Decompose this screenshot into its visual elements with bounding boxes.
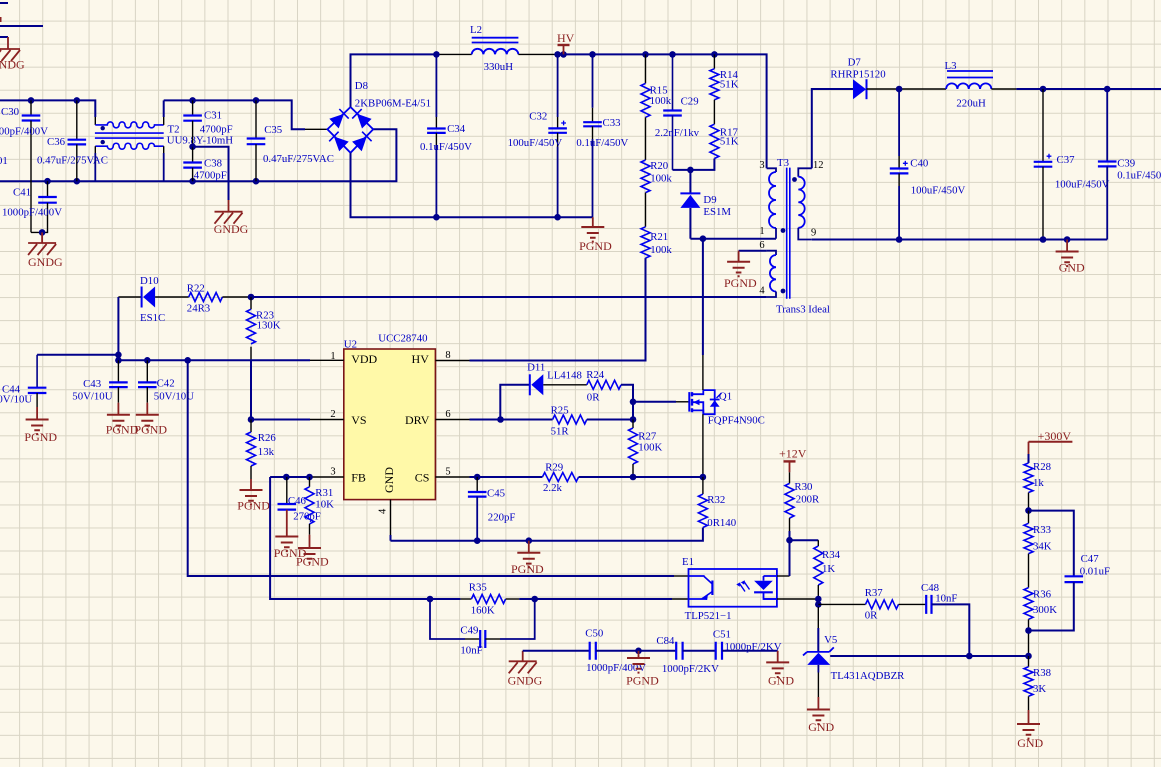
svg-text:C38: C38 [204,158,222,170]
bridge diode bottom-right [352,137,367,152]
svg-text:PGND: PGND [296,555,329,569]
ground PGND [296,524,329,569]
svg-text:1: 1 [759,226,764,237]
wire [645,117,647,160]
svg-text:10nF: 10nF [460,645,482,657]
node [253,97,260,104]
wire [702,239,704,355]
node [896,236,903,243]
node [1025,507,1032,514]
wire [932,604,970,656]
svg-text:U2: U2 [344,339,357,351]
svg-text:GNDG: GNDG [0,58,25,72]
svg-text:R20: R20 [650,160,668,172]
wire [812,89,853,168]
svg-text:R36: R36 [1033,589,1052,601]
svg-text:PGND: PGND [511,562,544,576]
svg-text:D7: D7 [848,57,862,69]
svg-text:GND: GND [1017,736,1043,750]
ground PGND [106,403,139,437]
node [815,601,822,608]
power port HV [557,31,575,54]
node [189,178,196,185]
node [39,229,46,236]
wire [817,607,819,628]
svg-text:0.47uF/275VAC: 0.47uF/275VAC [37,155,108,167]
svg-text:R34: R34 [822,549,841,561]
inductor L2 [470,24,518,73]
wire [0,36,8,38]
node [144,357,151,364]
node [554,214,561,221]
wire [777,598,818,600]
wire [543,384,587,386]
svg-text:3K: 3K [1033,683,1046,695]
svg-text:FB: FB [351,471,366,485]
transformer T2 [95,117,233,181]
svg-text:1: 1 [330,351,335,362]
svg-text:100k: 100k [650,244,672,256]
svg-text:1k: 1k [1033,477,1044,489]
capacitor C47 [1029,553,1111,631]
svg-text:2: 2 [330,409,335,420]
svg-text:220uH: 220uH [956,98,986,110]
svg-text:D11: D11 [527,362,545,374]
svg-text:C46: C46 [288,495,307,507]
optocoupler E1 [682,556,777,622]
wire [7,37,9,49]
svg-text:100k: 100k [650,173,672,185]
ground PGND [626,651,659,688]
node [283,474,290,481]
ground PGND [237,466,270,513]
ground GND [766,651,794,688]
svg-text:R21: R21 [650,231,668,243]
node [635,648,642,655]
svg-text:C47: C47 [1081,553,1100,565]
wire [250,347,252,361]
diode D10 [140,275,165,324]
node [700,474,707,481]
svg-text:R22: R22 [187,282,205,294]
ground PGND [134,403,167,437]
node [687,167,694,174]
diode D7 [830,57,885,100]
wire [1016,88,1161,90]
svg-text:100K: 100K [638,442,662,454]
bridge diode top-left [329,114,344,129]
resistor R24 [586,369,621,404]
wire [118,296,141,298]
wire [579,476,703,478]
svg-text:C39: C39 [1117,158,1135,170]
capacitor C34 [420,54,472,217]
ground GND [1056,240,1085,275]
svg-text:D9: D9 [703,194,716,206]
pin 5 CS [415,467,470,485]
wire [470,419,553,421]
svg-text:TLP521−1: TLP521−1 [685,610,732,622]
resistor R25 [551,405,587,438]
wire [1029,511,1074,577]
bridge rectifier D8 [327,107,373,153]
pin 4 GND [378,467,397,541]
wire [270,477,430,599]
wire [0,25,43,27]
svg-text:R25: R25 [551,405,569,417]
node [74,97,81,104]
svg-text:HV: HV [557,31,575,45]
bridge diode top-right [357,114,372,129]
ground GNDG [214,200,249,236]
svg-text:1000pF/400V: 1000pF/400V [0,126,48,138]
svg-text:0.1uF/450V: 0.1uF/450V [576,137,628,149]
svg-text:51K: 51K [720,136,739,148]
svg-text:FQPF4N90C: FQPF4N90C [708,415,765,427]
svg-text:R32: R32 [707,494,725,506]
svg-text:C42: C42 [157,378,175,390]
wire [645,193,647,227]
svg-text:RHRP15120: RHRP15120 [830,69,885,81]
ground GNDG [0,49,25,72]
resistor R37 [865,587,899,622]
wire [818,603,865,605]
node [28,97,35,104]
power port +12V [779,447,807,484]
capacitor C30 [0,100,48,232]
svg-text:0.47uF/275VAC: 0.47uF/275VAC [263,153,334,165]
capacitor C48 [921,582,957,614]
node [669,51,676,58]
node [1104,86,1111,93]
svg-text:220pF: 220pF [488,512,516,524]
node [560,51,567,58]
resistor R35 [460,582,519,617]
capacitor C50 [585,628,646,675]
capacitor C32 [508,54,567,217]
svg-text:R30: R30 [794,481,812,493]
ground PGND [579,217,612,253]
svg-text:D10: D10 [140,275,159,287]
svg-text:C40: C40 [910,158,928,170]
svg-text:PGND: PGND [579,239,612,253]
svg-text:+12V: +12V [779,447,807,461]
capacitor C38 [183,147,227,182]
wire [163,100,165,117]
wire [193,147,229,200]
op-amp U2 UCC28740 body [344,333,436,500]
svg-text:50V/10U: 50V/10U [0,394,32,406]
diode D11 [527,362,582,396]
capacitor C44 [0,355,46,407]
wire [674,575,689,577]
node [1040,86,1047,93]
svg-text:PGND: PGND [724,276,757,290]
svg-text:C43: C43 [83,378,101,390]
node [786,537,793,544]
svg-text:C35: C35 [264,124,282,136]
svg-text:C45: C45 [487,488,505,500]
svg-text:R29: R29 [545,462,563,474]
capacitor C45 [468,477,516,541]
capacitor C46 [278,477,321,524]
wire [676,401,689,403]
capacitor C35 [247,100,334,181]
svg-text:C37: C37 [1057,154,1076,166]
svg-text:R33: R33 [1033,524,1051,536]
resistor R15 [641,54,672,117]
svg-text:R38: R38 [1033,667,1051,679]
wire [817,628,819,652]
svg-text:12: 12 [813,160,824,171]
resistor R34 [814,540,841,599]
node [189,143,196,150]
wire [500,385,530,420]
bridge diode bottom-left [334,137,349,152]
resistor R26 [247,420,277,467]
svg-text:330uH: 330uH [484,61,514,73]
svg-text:1000pF/2KV: 1000pF/2KV [662,663,719,675]
resistor R32 [698,477,736,529]
wire [518,53,557,55]
svg-text:C34: C34 [447,123,466,135]
svg-text:E1: E1 [682,556,694,568]
node [189,97,196,104]
resistor R14 [710,54,739,99]
svg-text:R28: R28 [1033,461,1051,473]
svg-text:1000pF/400V: 1000pF/400V [2,207,62,219]
svg-text:C84: C84 [656,635,675,647]
svg-text:13k: 13k [258,446,275,458]
node [248,294,255,301]
wire [830,655,1028,657]
wire [713,100,715,124]
wire [817,665,819,673]
resistor R38 [1024,656,1051,710]
svg-text:0R: 0R [587,392,600,404]
svg-text:3: 3 [759,160,764,171]
svg-text:9: 9 [811,228,816,239]
node [433,51,440,58]
pin 1 VDD [310,351,378,366]
node [1025,653,1032,660]
svg-text:0.1uF/450V: 0.1uF/450V [1117,170,1161,182]
resistor R33 [1024,511,1052,588]
power port +300V [1029,429,1073,454]
svg-text:R26: R26 [258,432,277,444]
capacitor C33 [576,54,628,217]
capacitor C36 [37,100,108,181]
wire [430,598,460,600]
resistor R17 [710,124,739,158]
svg-text:34K: 34K [1033,541,1052,553]
wire [519,598,672,600]
svg-text:GND: GND [768,674,794,688]
svg-text:01: 01 [0,155,8,167]
wire [812,239,1107,241]
svg-text:10nF: 10nF [935,593,957,605]
node [589,51,596,58]
wire [270,476,310,478]
svg-text:HV: HV [412,352,430,366]
wire [250,361,252,420]
wire [0,2,8,4]
transformer T3 [767,157,830,316]
svg-text:C30: C30 [1,106,19,118]
wire [596,650,676,652]
node [306,474,313,481]
svg-text:R37: R37 [865,587,884,599]
svg-text:PGND: PGND [24,430,57,444]
node [1040,236,1047,243]
node [642,51,649,58]
node [115,357,122,364]
wire [817,599,819,607]
ground GNDG [28,232,63,269]
wire [0,100,95,117]
svg-text:C29: C29 [681,95,699,107]
resistor R36 [1024,588,1057,656]
svg-text:4: 4 [378,508,389,514]
svg-text:50V/10U: 50V/10U [72,391,112,403]
wire [683,650,716,652]
node [966,653,973,660]
capacitor C51 [713,629,782,660]
wire [251,296,767,298]
wire [777,575,790,577]
capacitor C49 [430,599,535,657]
node [74,178,81,185]
svg-text:2KBP06M-E4/51: 2KBP06M-E4/51 [355,98,431,110]
wire [673,159,715,170]
capacitor C29 [655,54,700,169]
diode D9 [680,170,731,239]
svg-text:GNDG: GNDG [214,222,249,236]
wire [351,54,437,107]
wire [305,128,327,130]
svg-text:4700pF: 4700pF [194,169,227,181]
wire [188,360,674,576]
svg-text:C32: C32 [529,111,547,123]
svg-text:2.2nF/1kv: 2.2nF/1kv [655,127,700,139]
svg-text:C49: C49 [460,625,478,637]
capacitor C37 [1034,89,1110,240]
ground GND [1017,710,1044,750]
pin 2 VS [310,409,367,427]
capacitor C84 [656,635,719,675]
wire [587,419,633,421]
node [1064,236,1071,243]
node [115,352,122,359]
wire [690,238,776,240]
svg-text:LL4148: LL4148 [547,370,582,382]
svg-text:0R: 0R [865,610,878,622]
capacitor C42 [138,360,194,402]
node [44,178,51,185]
resistor R30 [785,481,820,540]
svg-text:R24: R24 [586,369,605,381]
resistor R28 [1024,454,1051,511]
svg-text:GND: GND [1059,261,1085,275]
transistor V5 TL431 [803,634,905,682]
wire [391,528,703,541]
ground GNDG [508,651,543,688]
svg-text:DRV: DRV [405,413,430,427]
node [531,596,538,603]
wire [0,17,2,22]
node [474,474,481,481]
svg-text:UU9.8Y-10mH: UU9.8Y-10mH [167,135,233,147]
wire [790,539,819,541]
svg-text:130K: 130K [257,320,281,332]
capacitor C43 [72,360,127,402]
svg-text:8: 8 [445,350,450,361]
transistor Q1 [689,390,765,426]
inductor L3 [945,60,994,110]
svg-text:TL431AQDBZR: TL431AQDBZR [831,670,906,682]
wire [470,258,646,360]
svg-text:2.2k: 2.2k [543,482,562,494]
wire [155,296,189,298]
node [474,537,481,544]
wire [899,88,946,90]
svg-text:ES1C: ES1C [140,312,165,324]
svg-text:4700pF: 4700pF [200,124,233,136]
capacitor C31 [183,100,232,146]
wire [436,53,471,55]
svg-text:160K: 160K [471,605,495,617]
capacitor C40 [890,89,966,240]
svg-text:200R: 200R [796,494,820,506]
svg-text:51R: 51R [551,426,570,438]
svg-text:VDD: VDD [351,352,377,366]
svg-text:ES1M: ES1M [703,206,731,218]
svg-text:C36: C36 [47,136,66,148]
wire [672,598,689,600]
wire [523,650,590,652]
wire [117,297,119,355]
svg-text:PGND: PGND [134,423,167,437]
wire [702,414,704,477]
node [630,474,637,481]
wire [164,100,305,129]
svg-text:UCC28740: UCC28740 [378,333,427,345]
wire [817,673,819,698]
pin 3 FB [310,467,366,485]
wire [722,650,778,652]
wire [867,88,900,90]
node [253,178,260,185]
svg-text:Q1: Q1 [719,391,732,403]
svg-text:PGND: PGND [237,499,270,513]
resistor R27 [629,420,663,478]
svg-text:100uF/450V: 100uF/450V [1055,179,1110,191]
node [184,357,191,364]
svg-text:100k: 100k [650,95,672,107]
svg-text:100uF/450V: 100uF/450V [508,137,563,149]
wire [251,419,310,421]
pin 8 HV [412,350,470,366]
wire [351,153,593,217]
svg-text:PGND: PGND [626,674,659,688]
svg-text:L3: L3 [945,60,957,72]
svg-text:VS: VS [351,413,366,427]
node [815,596,822,603]
wire [118,359,310,361]
svg-text:T2: T2 [168,124,180,136]
wire [702,355,704,390]
resistor R21 [641,227,672,258]
